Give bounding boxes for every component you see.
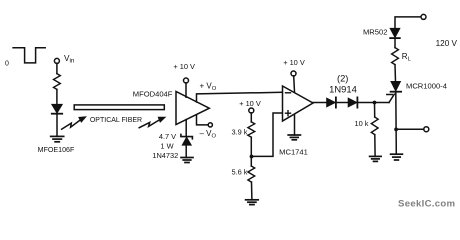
svg-text:(2): (2) xyxy=(337,72,348,83)
svg-text:Vin: Vin xyxy=(64,54,75,65)
watermark SeekIC.com xyxy=(398,199,455,210)
wire terminal to 3.9k xyxy=(250,113,252,122)
light emission arrow from LED xyxy=(62,117,86,129)
svg-text:10 k: 10 k xyxy=(355,119,369,128)
label +10V (divider) xyxy=(239,99,261,108)
LED MFOE106F xyxy=(52,104,62,113)
wire -Vo tap xyxy=(197,115,209,125)
label RL xyxy=(402,52,412,63)
svg-text:OPTICAL FIBER: OPTICAL FIBER xyxy=(90,117,142,124)
wire +10V to detector xyxy=(185,83,187,97)
svg-text:– VO: – VO xyxy=(200,129,217,140)
label MFOD404F xyxy=(133,90,173,99)
label MC1741 xyxy=(279,147,308,156)
svg-text:MCR1000-4: MCR1000-4 xyxy=(406,82,447,91)
svg-text:SeekIC.com: SeekIC.com xyxy=(398,199,455,210)
svg-text:5.6 k: 5.6 k xyxy=(231,168,247,177)
label 4.7 V xyxy=(159,132,176,141)
wire LED to ground xyxy=(56,114,58,137)
ground (below SCR) xyxy=(391,154,403,160)
node Vin terminal xyxy=(54,58,59,63)
ground (below LED) xyxy=(51,136,64,141)
terminal 120V top xyxy=(421,14,426,19)
wire detector to zener xyxy=(185,120,187,137)
junction divider node xyxy=(250,155,254,159)
svg-text:+ 10 V: + 10 V xyxy=(283,58,305,67)
label 1N914 xyxy=(329,84,357,95)
svg-text:+ VO: + VO xyxy=(200,82,217,93)
terminal +10V (op-amp) xyxy=(291,71,296,76)
label 1 W xyxy=(160,141,173,150)
diode D1 1N914 xyxy=(327,97,336,107)
SCR gate lead xyxy=(387,94,395,102)
ground (below zener) xyxy=(181,158,193,163)
SCR MCR1000-4 xyxy=(391,82,402,130)
resistor (series, unlabeled) xyxy=(54,74,61,90)
junction cathode node xyxy=(394,127,398,131)
svg-text:120 V: 120 V xyxy=(436,39,458,48)
svg-text:+ 10 V: + 10 V xyxy=(173,62,195,71)
svg-text:1 W: 1 W xyxy=(160,141,173,150)
label MFOE106F xyxy=(38,146,75,154)
wire 120V top feed xyxy=(395,17,421,29)
terminal +10V (detector) xyxy=(184,78,189,83)
ground (below op-amp) xyxy=(288,135,300,140)
label -Vo xyxy=(200,129,217,140)
label MR502 xyxy=(363,28,387,37)
wire MR502 to RL xyxy=(394,39,396,48)
label Vin xyxy=(64,54,75,65)
label OPTICAL FIBER xyxy=(90,117,142,124)
diode D2 1N914 xyxy=(348,97,357,107)
svg-text:RL: RL xyxy=(402,52,412,63)
label 5.6 k xyxy=(231,168,247,177)
wire cathode to ground xyxy=(395,129,397,154)
svg-text:MFOE106F: MFOE106F xyxy=(38,146,75,154)
label MCR1000-4 xyxy=(406,82,447,91)
label 10 k xyxy=(355,119,369,128)
svg-text:MFOD404F: MFOD404F xyxy=(133,90,173,99)
label (2) xyxy=(337,72,348,83)
wire RL to SCR xyxy=(394,65,397,82)
svg-text:4.7 V: 4.7 V xyxy=(159,132,176,141)
svg-text:+ 10 V: + 10 V xyxy=(239,99,261,108)
wire 5.6k to ground xyxy=(251,182,253,200)
label 3.9 k xyxy=(231,128,247,137)
label +10V (op-amp) xyxy=(283,58,305,67)
wire junction to op-amp + input xyxy=(252,113,283,156)
wire cathode to output terminal xyxy=(396,128,424,130)
svg-text:MC1741: MC1741 xyxy=(279,147,308,156)
svg-text:3.9 k: 3.9 k xyxy=(231,128,247,137)
diode MR502 xyxy=(390,28,400,38)
light arrow into detector xyxy=(139,117,165,128)
svg-text:1N914: 1N914 xyxy=(329,84,357,95)
label 1N4732 xyxy=(152,151,178,160)
label +Vo xyxy=(200,82,217,93)
op-amp MC1741 triangle xyxy=(283,86,314,121)
wire D1 to D2 xyxy=(337,102,349,104)
input pulse waveform xyxy=(13,48,45,63)
terminal +10V (divider) xyxy=(249,108,254,113)
wire op-amp to ground xyxy=(294,115,296,135)
wire +Vo tap xyxy=(197,92,283,102)
svg-text:1N4732: 1N4732 xyxy=(152,151,178,160)
optical fiber bar xyxy=(74,105,164,110)
wire op-amp output xyxy=(313,102,327,104)
wire resistor to LED xyxy=(56,89,58,104)
ground (below 10k) xyxy=(370,156,382,161)
terminal output xyxy=(424,127,429,132)
terminal -Vo xyxy=(208,123,212,127)
label +10V (detector) xyxy=(173,62,195,71)
wire +10V to op-amp xyxy=(293,76,296,92)
zener diode 1N4732 xyxy=(181,134,193,157)
svg-text:0: 0 xyxy=(5,60,9,67)
label 0 (waveform low level) xyxy=(5,60,9,67)
wire D2 to gate junction xyxy=(358,102,389,104)
label 120 V xyxy=(436,39,458,48)
wire junction to 10k xyxy=(374,103,376,118)
resistor 10k xyxy=(371,117,378,135)
ground (below 5.6k) xyxy=(246,200,259,205)
wire 10k to ground xyxy=(374,135,376,157)
wire Vin to resistor xyxy=(56,63,58,73)
svg-text:MR502: MR502 xyxy=(363,28,387,37)
wire 3.9k to junction xyxy=(250,137,252,166)
resistor RL xyxy=(392,48,399,65)
detector amplifier MFOD404F triangle xyxy=(176,92,209,125)
resistor 3.9k xyxy=(248,122,255,137)
junction gate node xyxy=(373,101,377,105)
resistor 5.6k xyxy=(248,166,255,182)
